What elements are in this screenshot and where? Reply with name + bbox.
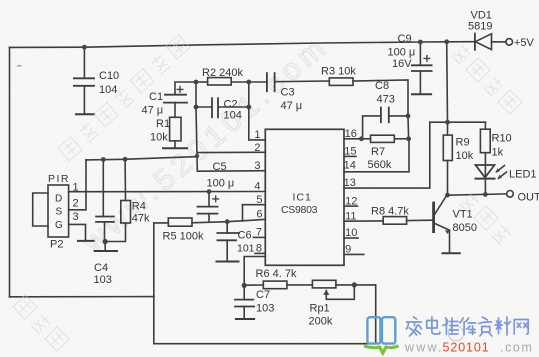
svg-text:D: D [55,194,62,205]
svg-text:16: 16 [345,128,357,140]
svg-text:R5 100k: R5 100k [163,231,204,243]
svg-text:14: 14 [344,160,356,172]
svg-text:100 μ: 100 μ [388,47,416,59]
svg-text:R7: R7 [371,146,385,158]
svg-text:C5: C5 [213,161,227,173]
svg-text:10k: 10k [456,150,474,162]
svg-text:10: 10 [345,227,357,239]
svg-text:1: 1 [73,182,79,194]
svg-text:100 μ: 100 μ [207,177,235,189]
svg-text:8: 8 [256,243,262,255]
svg-text:4: 4 [254,181,260,193]
svg-text:9: 9 [345,244,351,256]
svg-text:C6: C6 [238,230,252,242]
svg-text:560k: 560k [368,159,392,171]
svg-text:G: G [55,220,63,231]
svg-text:P2: P2 [50,239,63,251]
svg-text:R4: R4 [132,201,146,213]
svg-text:www.: www. [404,341,444,355]
svg-text:R1: R1 [156,118,170,130]
svg-text:47 μ: 47 μ [142,105,164,117]
svg-text:5: 5 [256,194,262,206]
svg-text:R9: R9 [456,137,470,149]
svg-text:R8 4.7k: R8 4.7k [371,206,409,218]
svg-text:1: 1 [254,129,260,141]
svg-text:200k: 200k [309,316,333,328]
svg-text:VT1: VT1 [453,209,473,221]
svg-text:2: 2 [73,198,79,210]
svg-text:103: 103 [256,303,274,315]
svg-text:47 μ: 47 μ [281,100,303,112]
svg-text:47k: 47k [132,213,150,225]
svg-text:1k: 1k [492,147,504,159]
svg-text:.com: .com [500,341,534,355]
svg-text:C3: C3 [281,87,295,99]
svg-text:15: 15 [344,146,356,158]
svg-text:16V: 16V [392,58,412,70]
svg-text:R2 240k: R2 240k [202,67,243,79]
svg-text:6: 6 [256,209,262,221]
svg-text:7: 7 [256,227,262,239]
svg-text:101: 101 [237,243,255,255]
svg-text:10k: 10k [150,132,168,144]
svg-text:8050: 8050 [453,222,477,234]
svg-text:3: 3 [73,211,79,223]
svg-text:103: 103 [94,274,112,286]
svg-text:C7: C7 [256,289,270,301]
svg-text:+5V: +5V [514,37,535,49]
svg-text:Rp1: Rp1 [310,303,330,315]
svg-text:PIR: PIR [48,173,70,185]
svg-text:IC1: IC1 [293,192,312,204]
svg-text:LED1: LED1 [509,169,537,181]
svg-text:C4: C4 [94,262,108,274]
svg-text:CS9803: CS9803 [281,204,318,216]
svg-text:3: 3 [254,160,260,172]
svg-text:R10: R10 [492,133,512,145]
svg-text:S: S [56,207,63,218]
svg-text:11: 11 [345,211,356,223]
svg-text:OUT: OUT [518,191,539,203]
svg-text:104: 104 [224,110,242,122]
svg-text:12: 12 [345,195,357,207]
svg-text:520101: 520101 [443,341,490,355]
svg-text:C8: C8 [375,80,389,92]
svg-text:104: 104 [99,84,117,96]
svg-text:C9: C9 [398,33,412,45]
svg-text:13: 13 [344,177,356,189]
svg-text:473: 473 [377,94,395,106]
svg-text:2: 2 [254,142,260,154]
svg-text:R3 10k: R3 10k [321,66,356,78]
svg-text:C10: C10 [99,70,119,82]
svg-text:C1: C1 [149,91,163,103]
svg-text:R6 4. 7k: R6 4. 7k [256,268,297,280]
svg-text:5819: 5819 [468,21,492,33]
